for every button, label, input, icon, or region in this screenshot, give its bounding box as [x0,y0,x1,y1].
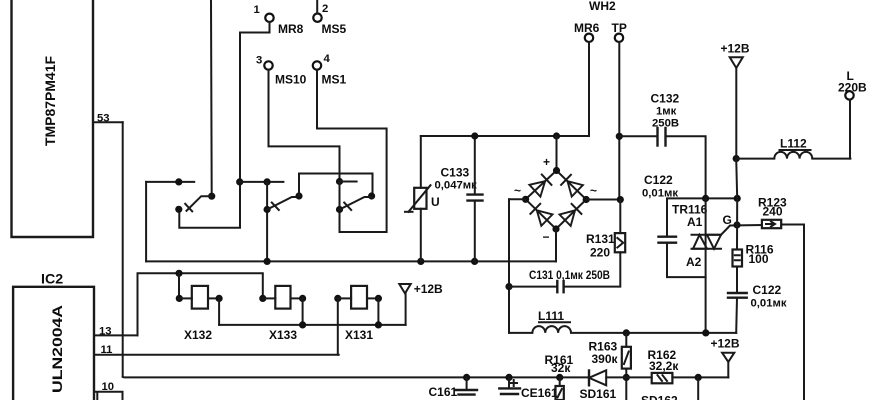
svg-text:MR6: MR6 [574,21,600,35]
svg-text:SD162: SD162 [641,394,678,400]
wire from top edge to switch S1 upper contact [210,0,213,196]
capacitor C131 [509,268,610,292]
svg-text:+12B: +12B [721,42,750,56]
wire pin13 up to relay feed [138,273,263,335]
svg-text:−: − [543,230,550,244]
pin 11 stub wire [94,354,339,356]
diode D2 upper-right [561,175,583,197]
svg-text:MR8: MR8 [278,22,304,36]
svg-text:C122: C122 [644,173,673,187]
inductor L111 [509,309,736,333]
svg-text:MS10: MS10 [275,73,307,87]
svg-text:240: 240 [763,205,783,219]
svg-text:~: ~ [590,184,597,198]
diode SD161 [580,370,617,400]
svg-text:CE161: CE161 [521,386,558,400]
diode D1 upper-left [529,175,551,197]
node triac A1 top [702,195,709,202]
node relay feed X132 [175,270,182,277]
svg-text:C122: C122 [753,283,782,297]
bridge edges [526,171,587,230]
svg-text:1: 1 [254,4,260,16]
node S3 pole [336,206,343,213]
wire S3 input stub [340,181,357,183]
svg-text:X132: X132 [184,328,212,342]
diode D4 lower-right [560,204,582,226]
terminal 3 MS10 [256,55,307,87]
svg-text:2: 2 [322,3,328,15]
wire bridge ac-left stub [509,198,526,200]
relay coil X132 [176,286,223,342]
wire X132 right down to +12 rail [218,298,220,325]
wire bridge minus down to common rail [555,229,557,261]
switch S3 lever [340,197,372,210]
svg-text:+: + [543,155,550,169]
pin 10 stub [94,391,123,393]
svg-text:0,01мк: 0,01мк [751,298,787,310]
wire +12B node down through gate node [736,159,737,250]
node C122 right end [734,195,741,202]
svg-text:+12B: +12B [414,282,443,296]
svg-text:A1: A1 [687,215,703,229]
svg-text:SD161: SD161 [580,387,617,400]
IC U2 ULN2004A box [13,287,94,400]
node L112 junction [733,155,740,162]
bottom rail segment 3 [672,376,728,378]
capacitor C122 gate [728,267,787,333]
diode bridge [514,136,597,244]
node gate junction [733,221,740,228]
svg-text:C131 0,1мк 250В: C131 0,1мк 250В [529,268,610,282]
supply +12B top [721,42,750,159]
node S2 throw contact [295,192,302,199]
wire relay +12 rail [219,324,406,326]
node S2 pole [264,206,271,213]
triac gate wire [721,225,762,235]
terminal 2 MS5 [313,3,346,36]
svg-text:R131: R131 [586,232,615,246]
switch S1 lever [187,196,212,211]
svg-text:1мк: 1мк [656,106,677,118]
capacitor C132 [619,92,705,199]
resistor R163 [589,333,631,400]
varistor RU [405,136,440,261]
capacitor C122 snubber on triac [642,173,737,277]
bridge vertex nodes [553,167,560,174]
bottom rail left segment [123,376,589,379]
node C131 left [505,283,512,290]
wire MR6 down to top rail [588,42,590,136]
svg-text:3: 3 [256,55,262,67]
wire ac-left down to C131 and L111 [508,199,510,333]
switch S3 tick [344,203,351,211]
node bus dot A [175,178,182,185]
node rail C133 [471,258,478,265]
node S2 feed junction [264,178,271,185]
relay coil X131 [334,286,382,342]
resistor R161 [545,353,574,400]
node top rail C133 [471,132,478,139]
connector box bottom [97,392,122,400]
node bottom rail R163 [623,374,630,381]
svg-text:WH2: WH2 [589,0,616,13]
terminal L 220V mains [838,69,867,159]
terminal 4 MS1 [313,53,347,87]
wire pin53 vertical to bottom rail [122,122,124,376]
svg-text:MS5: MS5 [322,22,347,36]
inductor L112 [736,137,850,159]
node S3 throw contact [368,192,375,199]
node rail S2 [264,258,271,265]
svg-text:32к: 32к [551,361,571,375]
svg-text:MS1: MS1 [322,73,347,87]
svg-text:4: 4 [324,53,331,65]
supply +12B relay rail [399,282,443,325]
wire S3 input to pole [339,182,341,210]
wire switch bus segment middle [240,181,284,183]
node L111 rail R163 [623,329,630,336]
wire X131 left down to pin 11 [337,298,339,354]
node MR8 bus junction [236,178,243,185]
wire to X132 coil [178,273,180,298]
wire left vertical to common rail [145,182,147,262]
wire X131 right to rail [377,298,379,325]
bottom rail segment 2 [606,376,652,378]
wire MS5 to top edge [316,0,318,14]
wire MR8 down-left-down to switch S1 [179,22,269,228]
triac TR116 [672,198,721,333]
switch S1 tick [185,204,192,212]
wire top rail y136 [421,135,589,137]
svg-text:C132: C132 [651,92,680,106]
svg-text:390к: 390к [592,352,619,366]
resistor R162 [648,348,680,383]
svg-text:+12B: +12B [711,337,740,351]
switch S2 lever [267,197,299,210]
terminal TP [612,21,627,42]
svg-text:0,047мк: 0,047мк [435,180,478,192]
node rail X131 [375,321,382,328]
svg-text:X131: X131 [345,328,373,342]
svg-text:L112: L112 [780,137,807,151]
wire X133 right to rail [302,298,304,325]
relay coil X133 [259,286,306,342]
wire MS10 down to switch S3 input [269,70,340,182]
svg-text:TMP87PM41F: TMP87PM41F [43,56,59,146]
svg-text:32,2к: 32,2к [649,359,679,373]
diode D3 lower-left [530,204,552,226]
IC U1 TMP87PM41F box [12,0,94,237]
resistor R131 [564,200,625,287]
node rail X133 [299,321,306,328]
svg-text:U: U [431,195,440,209]
node triac A2 rail [702,329,709,336]
svg-text:220: 220 [590,246,610,260]
svg-text:G: G [723,213,732,227]
wire S2 vertical pole to rail [266,182,268,262]
node SD162 junction [695,374,702,381]
wire SD162 down to bottom edge [697,377,699,400]
svg-text:C161: C161 [429,385,458,399]
svg-text:L111: L111 [538,309,564,323]
svg-text:A2: A2 [686,255,702,269]
wire switch bus segment left [146,181,194,183]
node S1 upper contact [208,193,215,200]
wire R123 right down to bottom edge [781,225,804,400]
node S3 input junction [336,178,343,185]
supply +12B bottom [711,337,740,378]
node TP / C132 junction [616,133,623,140]
pin 13 stub [94,334,138,336]
wire MS1 down-right to switch S3 pole loop [317,70,387,232]
capacitor C161 [429,374,478,399]
terminal 1 MR8 [254,4,304,36]
wire TP down to bridge ac right [618,42,620,200]
switch S2 tick [272,203,279,211]
terminal MR6 [574,21,600,42]
capacitor C133 [435,136,483,261]
node R131 top [617,196,624,203]
resistor R123 [758,196,787,229]
resistor R116 [733,243,774,267]
node top rail bridge [553,132,560,139]
svg-text:100: 100 [749,252,769,266]
node S1 lower contact [175,206,182,213]
svg-text:ULN2004A: ULN2004A [50,305,66,393]
svg-text:X133: X133 [269,328,297,342]
svg-text:IC2: IC2 [41,272,63,288]
pin 53 stub wire [93,121,123,123]
svg-text:~: ~ [514,184,521,198]
svg-text:C133: C133 [441,166,470,180]
capacitor CE161 polarized [499,374,558,400]
wire throw bracket S2-S3 [299,174,373,197]
wire bridge ac-right stub [586,199,620,201]
wire common rail y261 [146,260,556,262]
node rail varistor [417,258,424,265]
